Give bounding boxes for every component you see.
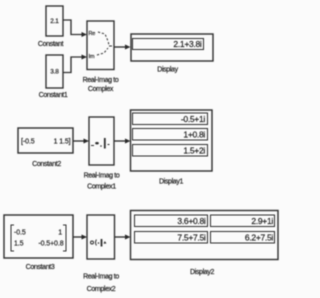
svg-text:1: 1 bbox=[58, 230, 62, 237]
svg-text:[-0.5: [-0.5 bbox=[21, 139, 35, 146]
svg-text:Im: Im bbox=[89, 54, 95, 60]
svg-text:Constant2: Constant2 bbox=[32, 161, 61, 168]
svg-text:-0.5+0.8: -0.5+0.8 bbox=[38, 241, 63, 248]
wire U1 to Display bbox=[114, 46, 125, 48]
svg-text:-0.5: -0.5 bbox=[14, 230, 26, 237]
svg-text:Display: Display bbox=[157, 67, 178, 74]
svg-text:1 1.5]: 1 1.5] bbox=[54, 139, 71, 146]
svg-text:Constant3: Constant3 bbox=[26, 264, 55, 271]
block Real-Imag to Complex U1 bbox=[87, 21, 114, 70]
display block Display2 bbox=[131, 211, 279, 260]
svg-text:Complex: Complex bbox=[88, 86, 114, 93]
svg-text:Re: Re bbox=[89, 31, 96, 37]
svg-text:3.8: 3.8 bbox=[50, 69, 59, 76]
constant block Constant2 (vector) bbox=[18, 128, 73, 153]
svg-text:1+0.8i: 1+0.8i bbox=[183, 130, 205, 140]
block Real-Imag to Complex1 U2 bbox=[89, 117, 114, 165]
svg-text:3.6+0.8i: 3.6+0.8i bbox=[177, 216, 205, 226]
svg-text:2.1: 2.1 bbox=[50, 18, 59, 25]
wire Constant to Re port bbox=[63, 20, 82, 35]
svg-text:Constant1: Constant1 bbox=[39, 92, 68, 99]
constant block Constant1 (3.8) bbox=[46, 55, 63, 88]
svg-text:Complex2: Complex2 bbox=[87, 286, 116, 293]
svg-text:Real-Imag to: Real-Imag to bbox=[83, 77, 119, 84]
wire Constant1 to Im port bbox=[63, 57, 82, 73]
wire Constant2 to U2 bbox=[73, 140, 84, 142]
svg-text:-0.5+1i: -0.5+1i bbox=[181, 114, 206, 124]
svg-text:Complex1: Complex1 bbox=[87, 184, 116, 191]
svg-text:Real-Imag to: Real-Imag to bbox=[84, 173, 120, 180]
svg-text:Display2: Display2 bbox=[190, 269, 215, 276]
wire U3 to Display2 bbox=[115, 236, 127, 238]
svg-text:Constant: Constant bbox=[38, 41, 64, 48]
svg-text:1.5+2i: 1.5+2i bbox=[183, 146, 205, 156]
svg-text:2.1+3.8i: 2.1+3.8i bbox=[173, 39, 201, 49]
display block Display1 bbox=[131, 110, 213, 171]
constant block Constant3 (matrix) bbox=[4, 215, 73, 258]
wire U2 to Display1 bbox=[114, 140, 126, 142]
svg-text:Real-Imag to: Real-Imag to bbox=[83, 274, 119, 281]
block Real-Imag to Complex2 U3 bbox=[87, 215, 115, 259]
svg-text:Display1: Display1 bbox=[159, 179, 184, 186]
constant block Constant (2.1) bbox=[46, 6, 63, 36]
svg-text:6.2+7.5i: 6.2+7.5i bbox=[245, 233, 273, 243]
svg-text:2.9+1i: 2.9+1i bbox=[251, 216, 273, 226]
svg-text:1.5: 1.5 bbox=[14, 241, 24, 248]
svg-text:7.5+7.5i: 7.5+7.5i bbox=[177, 233, 205, 243]
wire Constant3 to U3 bbox=[73, 236, 82, 238]
display block Display bbox=[131, 34, 213, 61]
